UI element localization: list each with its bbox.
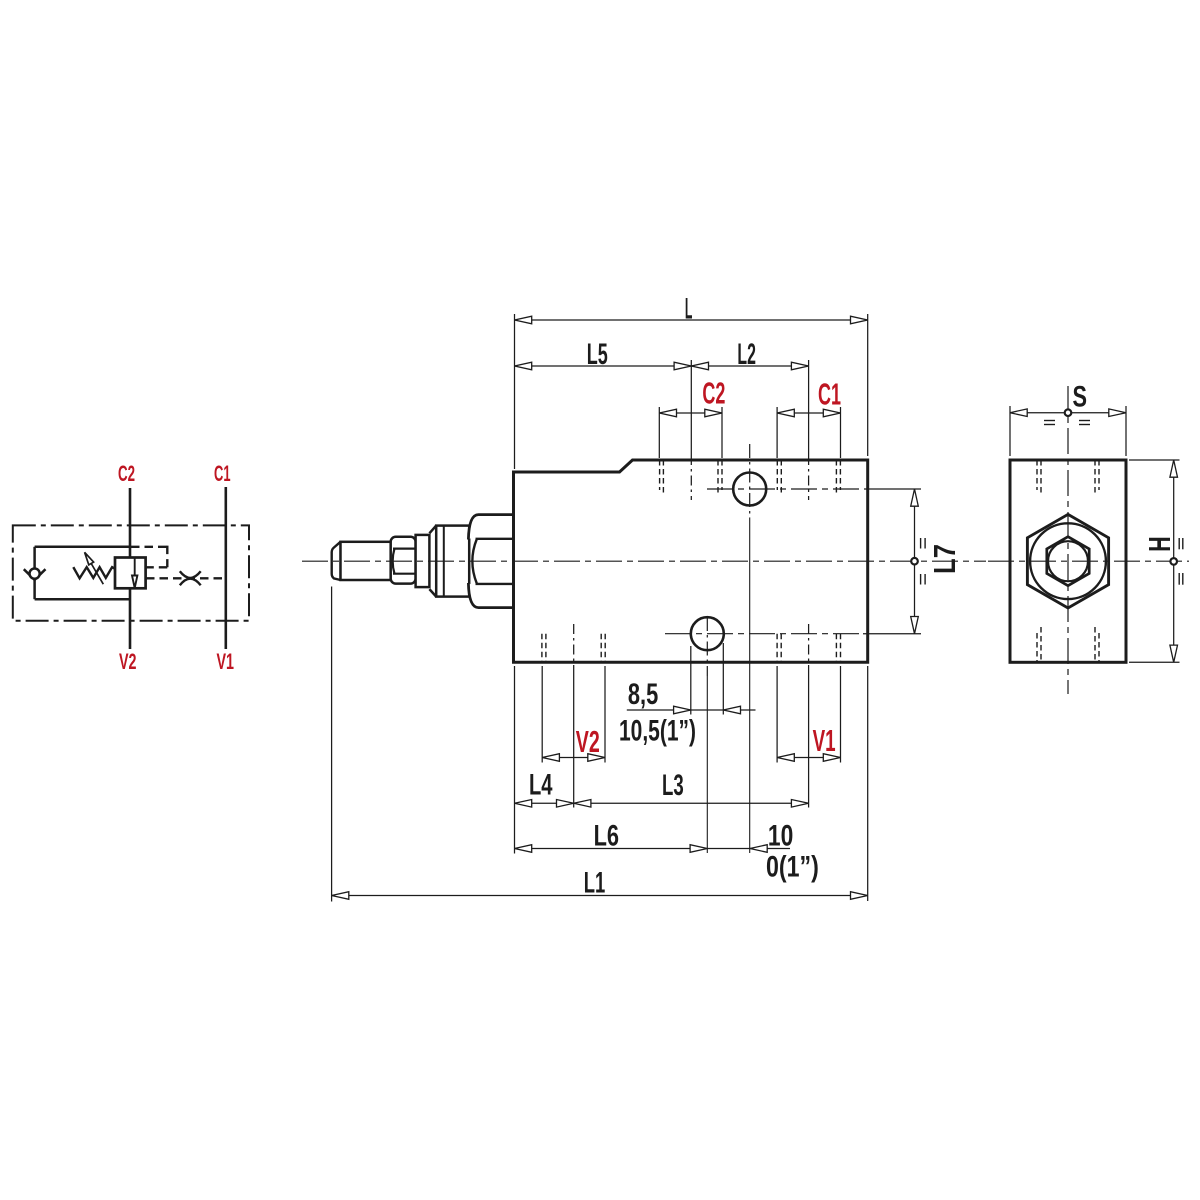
wire check-valve branch top xyxy=(35,546,130,549)
svg-text:L7: L7 xyxy=(928,544,962,574)
extension line C2 port center xyxy=(690,360,692,455)
L7 center mark and symmetry marks xyxy=(911,538,925,585)
node C1-V1 port line xyxy=(225,487,228,649)
valve body outline (main view) xyxy=(514,460,868,662)
dimension C2 xyxy=(659,412,722,414)
hex chamfer circle xyxy=(1030,523,1106,599)
relief valve body (square) xyxy=(115,558,146,589)
dimension L xyxy=(515,319,868,321)
side view port hidden lines top xyxy=(1037,460,1099,496)
svg-text:V2: V2 xyxy=(576,725,600,759)
svg-text:L3: L3 xyxy=(662,769,684,802)
top hole horizontal center line xyxy=(707,488,869,490)
extension line body left top xyxy=(514,314,516,469)
boundary box (valve envelope, dash-dot) xyxy=(13,525,249,620)
C2 port hidden lines (top face) xyxy=(660,460,722,495)
svg-text:S: S xyxy=(1073,381,1088,414)
side view body outline xyxy=(1010,460,1126,662)
bottom hole horizontal center line xyxy=(665,633,863,635)
V2 port center extension xyxy=(573,624,575,668)
svg-text:V1: V1 xyxy=(813,724,836,758)
dimension L1 xyxy=(332,895,868,897)
node C2 port line xyxy=(129,488,132,558)
spring (adjustable) xyxy=(73,567,115,578)
C1 port hidden lines (top face) xyxy=(777,460,840,495)
svg-text:C2: C2 xyxy=(702,377,725,411)
svg-text:L6: L6 xyxy=(594,820,619,853)
main horizontal center line xyxy=(302,560,986,562)
gauge hole top (cross drilling) xyxy=(733,473,766,506)
adjusting screw section xyxy=(416,535,430,587)
orifice (restrictor) xyxy=(180,571,201,585)
extension line C1/V1 port center xyxy=(808,360,810,455)
bottom hole vertical center line / L6 extension xyxy=(706,617,708,676)
locknut xyxy=(391,537,416,584)
adjustment arrow across spring xyxy=(85,552,104,584)
top hole vertical center line / 10-dim extension xyxy=(749,444,751,518)
H center mark and symmetry marks xyxy=(1170,558,1177,565)
arrows of all dimensions xyxy=(332,316,919,899)
svg-text:10: 10 xyxy=(768,820,793,853)
dimension H xyxy=(1129,460,1180,662)
wire check-valve branch bottom xyxy=(35,598,130,601)
relief valve flow arrow xyxy=(132,558,137,589)
svg-text:L4: L4 xyxy=(529,769,553,802)
taper to cap xyxy=(429,526,436,597)
extension line body right top xyxy=(867,314,869,456)
svg-text:C1: C1 xyxy=(214,461,231,486)
side view port hidden lines bottom xyxy=(1037,627,1099,662)
svg-text:8,5: 8,5 xyxy=(628,678,658,711)
dimension L5 / L2 xyxy=(515,365,809,367)
dimension 8,5 hole dia xyxy=(627,709,756,711)
cartridge stem cylinder xyxy=(341,542,391,580)
svg-text:C1: C1 xyxy=(818,378,841,412)
V1 port hidden lines (bottom face) xyxy=(777,634,840,663)
cartridge stem tip xyxy=(332,542,341,580)
valve hex (side silhouette) xyxy=(468,515,513,608)
dimension L6 / 10 xyxy=(515,848,791,850)
side view horizontal center line xyxy=(988,560,1189,562)
dimension V1 xyxy=(777,757,840,759)
pilot line (dashed) to C1 through orifice xyxy=(146,577,226,579)
pilot line (dashed) to C2 xyxy=(131,546,167,568)
svg-text:L: L xyxy=(685,293,693,326)
svg-text:0(1”): 0(1”) xyxy=(766,851,819,884)
extension lines C2 counterbore xyxy=(658,407,660,458)
dimension L7 xyxy=(914,489,916,634)
dimension L4 / L3 xyxy=(515,802,809,804)
check valve CV1 xyxy=(24,547,46,599)
gauge hole bottom (cross drilling) xyxy=(691,617,724,650)
side view vertical center line xyxy=(1067,386,1069,694)
internal hex socket xyxy=(1047,537,1089,586)
svg-text:L5: L5 xyxy=(587,338,608,371)
dimension S xyxy=(1010,406,1126,456)
svg-text:L1: L1 xyxy=(584,867,606,900)
svg-text:L2: L2 xyxy=(737,338,756,371)
extension lines C1 counterbore xyxy=(776,407,778,458)
internal socket circle xyxy=(1048,541,1088,581)
svg-text:V2: V2 xyxy=(119,649,137,674)
S center mark and symmetry marks xyxy=(1065,409,1072,416)
V2 port hidden lines (bottom face) xyxy=(542,634,605,663)
node V2 port line xyxy=(129,588,132,649)
cap ring xyxy=(436,526,469,597)
svg-text:V1: V1 xyxy=(217,649,235,674)
dimension V2 xyxy=(542,757,605,759)
svg-text:H: H xyxy=(1143,536,1177,551)
svg-text:10,5(1”): 10,5(1”) xyxy=(619,715,696,748)
hex nut outer (across corners) xyxy=(1027,514,1108,608)
svg-text:C2: C2 xyxy=(118,461,135,486)
dimension C1 xyxy=(777,412,840,414)
S and H arrows xyxy=(1010,409,1178,662)
body left bottom extension xyxy=(514,666,516,854)
